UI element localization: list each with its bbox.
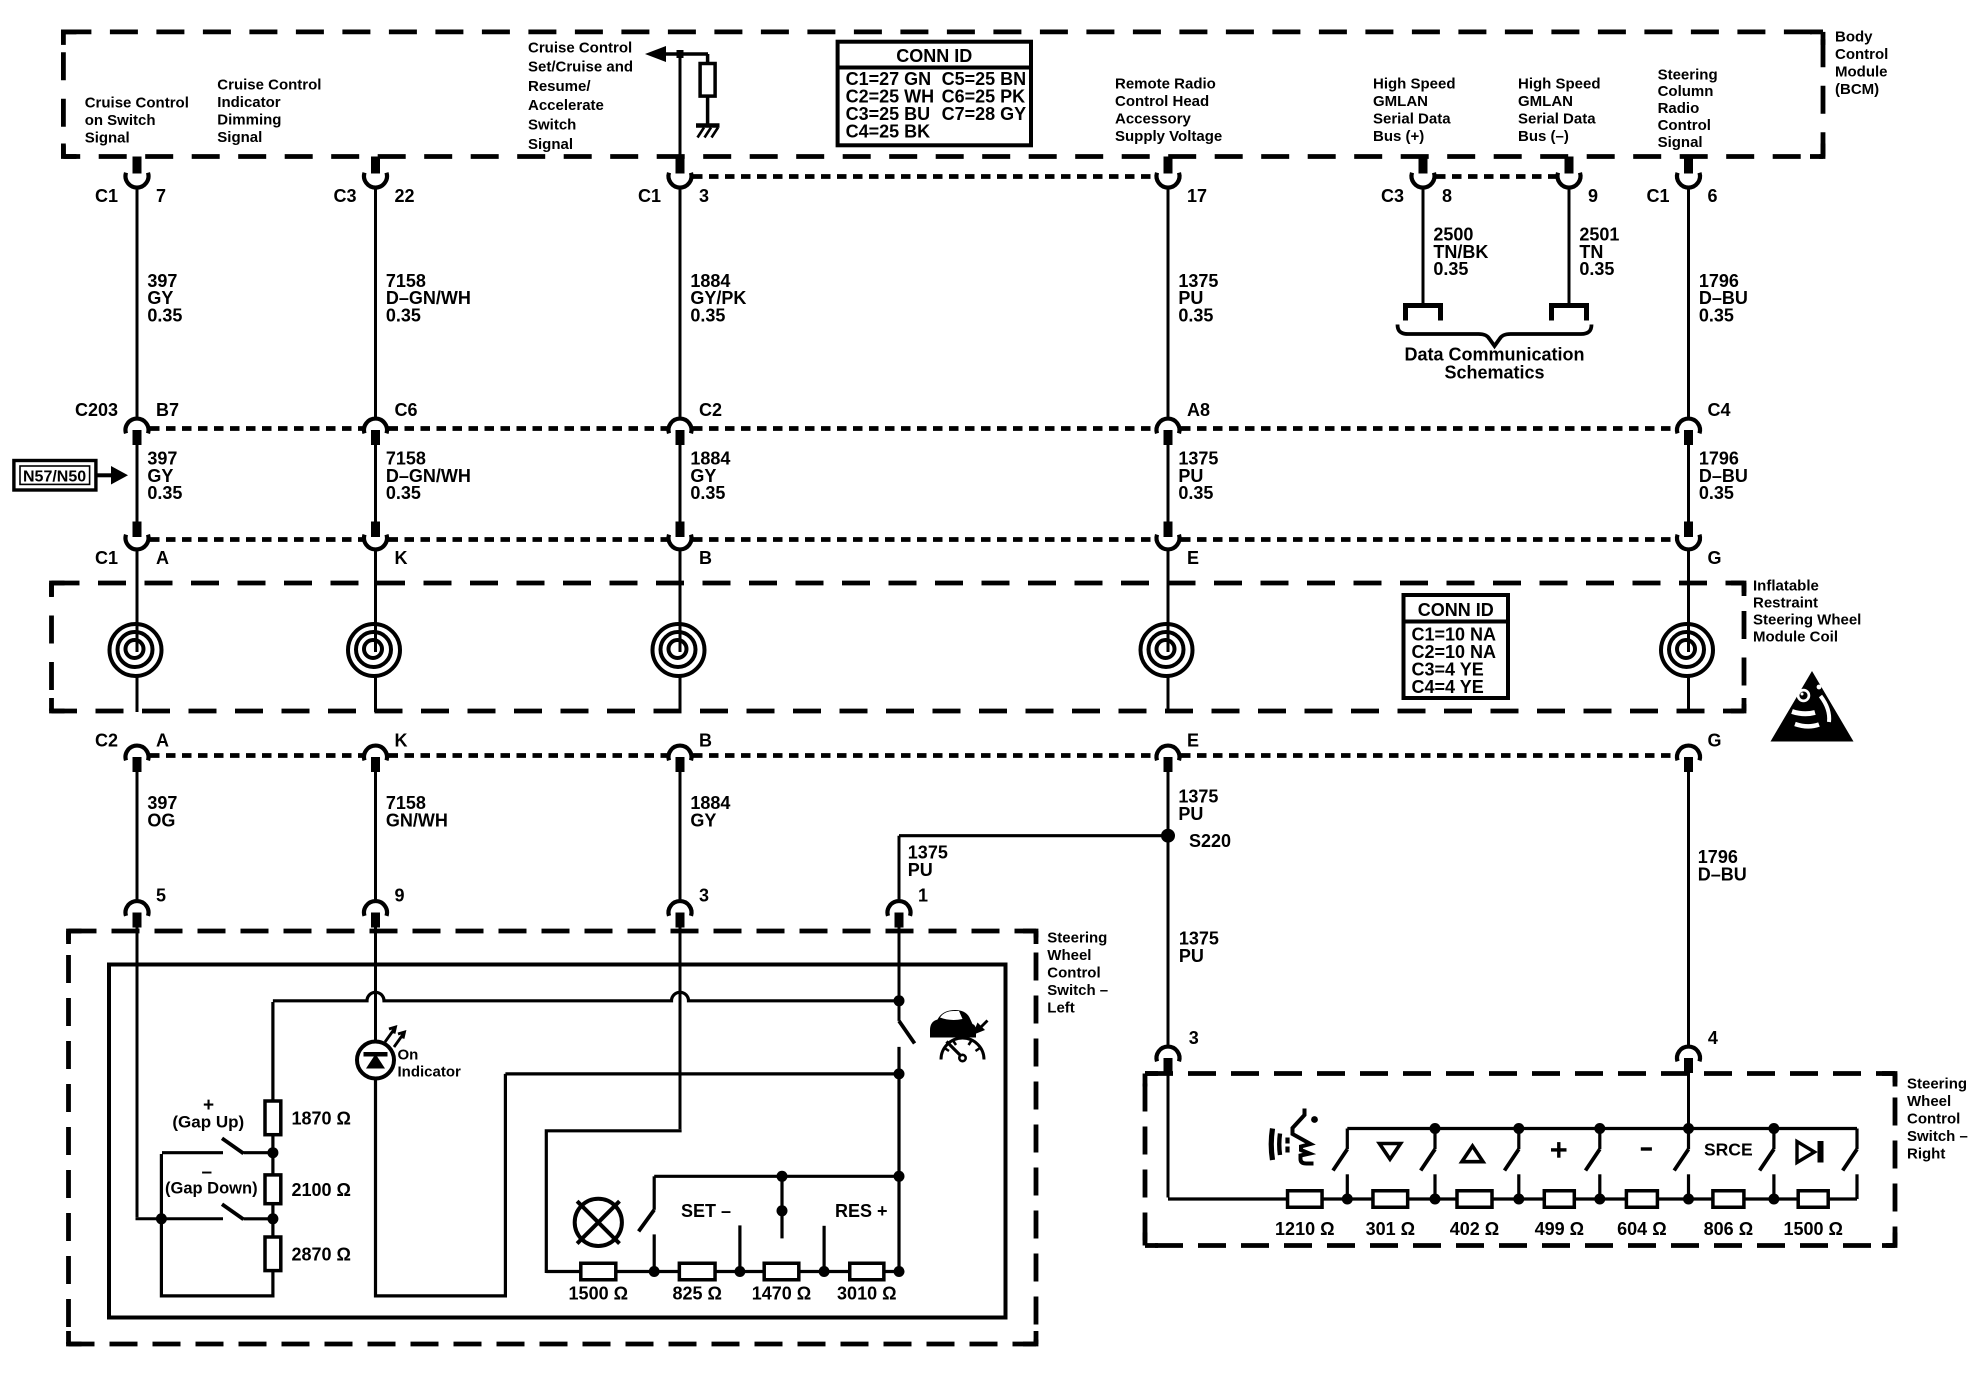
- wire: pin 3 feed down to resistor ladder: [1168, 1073, 1857, 1200]
- connector: BCM pin 22 (wire at x=375.5): [333, 157, 414, 207]
- connector: BCM pin 9 (wire at x=1569): [1558, 157, 1599, 207]
- svg-text:0.35: 0.35: [147, 483, 182, 503]
- svg-text:Steering: Steering: [1907, 1075, 1967, 1092]
- resistor: 806 Ω (right box): [1704, 1191, 1753, 1239]
- connector: coil connector C1 pin B: [669, 522, 713, 569]
- svg-text:0.35: 0.35: [1699, 483, 1734, 503]
- resistor: 499 Ω (right box): [1535, 1191, 1584, 1239]
- svg-text:Restraint: Restraint: [1753, 594, 1818, 611]
- component box: switch-left inner housing: [109, 965, 1006, 1318]
- svg-text:A: A: [156, 548, 169, 568]
- node: junction gap-up at chain: [267, 1147, 278, 1158]
- svg-text:1470 Ω: 1470 Ω: [752, 1284, 811, 1304]
- wire: circuit 1884 from C203 to coil connector C1: [679, 445, 682, 522]
- svg-text:N57/N50: N57/N50: [23, 469, 86, 486]
- wire: circuit 397 from C2 to switch connector: [136, 772, 139, 902]
- svg-text:1210 Ω: 1210 Ω: [1275, 1219, 1334, 1239]
- svg-text:SRCE: SRCE: [1704, 1140, 1753, 1160]
- connector: steering wheel switch-left pin 1: [888, 886, 929, 928]
- switch: source: [1760, 1129, 1774, 1200]
- module box: Inflatable Restraint Steering Wheel Module Coil (dashed): [52, 583, 1745, 711]
- wire: circuit 1884 from BCM to C203 row: [679, 186, 682, 419]
- svg-text:Signal: Signal: [1658, 134, 1703, 151]
- wire: pin 4 feed down to switch common bus: [1687, 1073, 1690, 1129]
- label: wire 1884 GY (lower): [690, 793, 730, 830]
- wire: circuit 1796 D-BU from C2 pin G to connector 4: [1687, 772, 1690, 1047]
- svg-text:1500 Ω: 1500 Ω: [569, 1284, 628, 1304]
- switch: volume +: [1586, 1129, 1600, 1200]
- connector: C203 pin B7: [75, 400, 179, 445]
- bus: SET/RES resistor ladder: [546, 1270, 899, 1273]
- svg-text:Dimming: Dimming: [217, 112, 281, 129]
- svg-text:C4=25 BK: C4=25 BK: [846, 121, 931, 141]
- node: junction switch voice at ladder: [1342, 1194, 1353, 1205]
- resistor: 604 Ω (right box): [1617, 1191, 1666, 1239]
- connector: coil connector C2 pin A: [95, 731, 169, 773]
- switch: seek up: [1505, 1129, 1519, 1200]
- node: junction cruise switch and feed line: [894, 995, 905, 1006]
- label: High Speed GMLAN Serial Data Bus (+): [1373, 75, 1456, 145]
- connector row line: dotted BCM in-line row (wires 5-6): [1436, 174, 1556, 179]
- svg-text:(BCM): (BCM): [1835, 81, 1879, 98]
- wire: pin 1 stub into switch box: [898, 927, 901, 967]
- switch: seek down: [1421, 1129, 1435, 1200]
- svg-text:Data Communication: Data Communication: [1404, 345, 1584, 365]
- label: Data Communication Schematics: [1404, 345, 1584, 383]
- svg-text:Remote Radio: Remote Radio: [1115, 75, 1216, 92]
- connector: C203 pin C6: [364, 400, 418, 445]
- label: Steering Wheel Control Switch - Right: [1907, 1075, 1968, 1162]
- terminator: off-page reference for circuit 2501: [1552, 306, 1587, 321]
- label: wire 1375 PU (above S220): [1178, 786, 1218, 823]
- label: wire 1884 GY (below C203): [690, 448, 730, 503]
- svg-text:C6: C6: [395, 400, 418, 420]
- svg-text:Schematics: Schematics: [1444, 363, 1544, 383]
- connector: steering wheel switch-right pin 3: [1157, 1028, 1199, 1073]
- bus: switch-right common (top): [1347, 1127, 1857, 1130]
- svg-text:Module Coil: Module Coil: [1753, 628, 1838, 645]
- wire: circuit 397 from C203 to coil connector C1: [136, 445, 139, 522]
- svg-text:GY: GY: [690, 810, 716, 830]
- wire: pin 1 circuit to cruise on/off switch: [898, 965, 901, 1002]
- svg-text:C3: C3: [333, 186, 356, 206]
- switch: Gap Down blade: [222, 1204, 268, 1219]
- svg-text:K: K: [395, 731, 408, 751]
- svg-text:B7: B7: [156, 400, 179, 420]
- label: Body Control Module (BCM): [1835, 28, 1888, 98]
- svg-text:0.35: 0.35: [1579, 259, 1614, 279]
- connector: BCM pin 8 (wire at x=1423): [1381, 157, 1452, 207]
- wire: resistor to ground: [706, 96, 710, 124]
- bus: SET/RES switch common (top): [654, 1175, 899, 1178]
- svg-text:Signal: Signal: [217, 129, 262, 146]
- node: junction centre stub at ladder: [734, 1266, 745, 1277]
- svg-text:K: K: [395, 548, 408, 568]
- svg-text:4: 4: [1708, 1028, 1718, 1048]
- connector: coil connector C2 pin K: [364, 731, 408, 773]
- terminator: off-page reference for circuit 2500: [1406, 306, 1441, 321]
- icon: seek up triangle: [1462, 1146, 1483, 1162]
- icon: voice recognition: [1271, 1109, 1318, 1164]
- svg-text:SET –: SET –: [681, 1201, 731, 1221]
- svg-text:0.35: 0.35: [690, 306, 725, 326]
- svg-text:Body: Body: [1835, 28, 1873, 45]
- module box: Steering Wheel Control Switch - Right (dashed): [1145, 1074, 1895, 1246]
- svg-text:604 Ω: 604 Ω: [1617, 1219, 1666, 1239]
- svg-text:9: 9: [1588, 186, 1598, 206]
- inductor: SIR coil winding on wire x=375.5: [348, 548, 400, 713]
- svg-text:Wheel: Wheel: [1047, 947, 1091, 964]
- label: wire 7158 D–GN/WH (below C203): [386, 448, 471, 503]
- label: wire 1796 D–BU: [1699, 271, 1748, 326]
- inductor: SIR coil winding on wire x=1688.5: [1661, 548, 1713, 713]
- label: 2100 ohm: [292, 1180, 351, 1200]
- svg-text:A: A: [156, 731, 169, 751]
- resistor: 825 ohm: [672, 1263, 721, 1303]
- label: wire 397 GY (below C203): [147, 448, 182, 503]
- svg-text:E: E: [1187, 731, 1199, 751]
- svg-text:7: 7: [156, 186, 166, 206]
- svg-text:Steering Wheel: Steering Wheel: [1753, 611, 1861, 628]
- node: junction switch source at ladder: [1768, 1194, 1779, 1205]
- icon: volume plus: [1551, 1142, 1567, 1158]
- svg-text:C7=28 GY: C7=28 GY: [942, 104, 1027, 124]
- label: High Speed GMLAN Serial Data Bus (-): [1518, 75, 1601, 145]
- svg-text:Resume/: Resume/: [528, 78, 591, 95]
- svg-text:825 Ω: 825 Ω: [672, 1284, 721, 1304]
- node: junction at SET/RES top bus right end: [894, 1171, 905, 1182]
- reference box: N57/N50: [14, 461, 96, 491]
- label: - (Gap Down): [165, 1162, 258, 1198]
- label: Cruise Control Set/Cruise and Resume/Accelerate Switch Signal: [528, 39, 633, 153]
- svg-text:Column: Column: [1658, 83, 1714, 100]
- wire: SET/RES centre pole: [777, 1171, 788, 1239]
- svg-text:301 Ω: 301 Ω: [1366, 1219, 1415, 1239]
- svg-text:B: B: [699, 548, 712, 568]
- wire: circuit 1375 from C203 to coil connector C1: [1167, 445, 1170, 522]
- svg-text:Switch: Switch: [528, 117, 576, 134]
- wire: pin 9 stub into switch box: [374, 927, 377, 967]
- svg-text:C4=4 YE: C4=4 YE: [1412, 677, 1484, 697]
- label: 2870 ohm: [292, 1245, 351, 1265]
- svg-text:Cruise Control: Cruise Control: [85, 94, 189, 111]
- svg-text:0.35: 0.35: [1433, 259, 1468, 279]
- node: junction switch volume + at ladder: [1594, 1194, 1605, 1205]
- svg-text:Right: Right: [1907, 1146, 1945, 1163]
- svg-text:1870 Ω: 1870 Ω: [292, 1109, 351, 1129]
- wire: corner from arrow line down to resistor: [706, 54, 710, 65]
- switch: SET-: [639, 1176, 655, 1271]
- warning: SIR airbag caution triangle: [1771, 671, 1854, 742]
- brace: data communication schematics reference: [1398, 325, 1592, 347]
- label: wire 1884 GY/PK: [690, 271, 746, 326]
- svg-text:3: 3: [699, 886, 709, 906]
- wire: circuit 7158 from BCM to C203 row: [374, 186, 377, 419]
- connector: coil connector C1 pin A: [95, 522, 169, 569]
- label: Inflatable Restraint Steering Wheel Module Coil: [1753, 577, 1861, 645]
- label: 1870 ohm: [292, 1109, 351, 1129]
- label: wire 7158 GN/WH (lower): [386, 793, 448, 830]
- connector: coil connector C1 pin E: [1157, 522, 1200, 569]
- connector: BCM pin 6 (wire at x=1688.5): [1646, 157, 1717, 207]
- icon: volume minus: [1641, 1147, 1652, 1150]
- svg-text:S220: S220: [1189, 831, 1231, 851]
- module box: Steering Wheel Control Switch - Left (dashed): [69, 931, 1037, 1344]
- svg-text:6: 6: [1708, 186, 1718, 206]
- svg-text:PU: PU: [908, 860, 933, 880]
- label: wire 1375 PU (below S220): [1179, 928, 1219, 965]
- wire: circuit 7158 from C2 to switch connector: [374, 772, 377, 902]
- node: junction switch seek down at top bus: [1430, 1123, 1441, 1134]
- node: junction ladder right end: [894, 1266, 905, 1277]
- svg-text:Accessory: Accessory: [1115, 111, 1192, 128]
- wire: circuit 1884 from C2 to switch connector: [679, 772, 682, 902]
- svg-text:High Speed: High Speed: [1373, 75, 1456, 92]
- resistor: 1500 ohm (left box): [569, 1263, 628, 1303]
- wire: resistor-chain feed line with hops over wires 9 and 3: [273, 992, 898, 1001]
- node: junction switch source at top bus: [1768, 1123, 1779, 1134]
- wire: GMLAN circuit 2500: [1422, 186, 1425, 304]
- connector row line: coil C1 dotted row: [150, 537, 1676, 542]
- node: junction switch volume - at ladder: [1683, 1194, 1694, 1205]
- svg-text:5: 5: [156, 886, 166, 906]
- resistor: 301 Ω (right box): [1366, 1191, 1415, 1239]
- svg-text:3: 3: [1189, 1028, 1199, 1048]
- icon: seek down triangle: [1379, 1144, 1400, 1160]
- node: junction RES stub at ladder: [819, 1266, 830, 1277]
- switch: cruise control on/off: [899, 1001, 915, 1273]
- svg-text:CONN ID: CONN ID: [1418, 600, 1494, 620]
- connector: BCM pin 7 (wire at x=137): [95, 157, 166, 207]
- wire: circuit 397 from BCM to C203 row: [136, 186, 139, 419]
- connector row line: C203 dotted row: [150, 426, 1676, 431]
- connector: C203 pin C2: [669, 400, 723, 445]
- svg-text:Control: Control: [1658, 117, 1711, 134]
- label: wire 1375 PU (branch): [908, 842, 948, 879]
- label: wire 397 GY: [147, 271, 182, 326]
- svg-text:Module: Module: [1835, 64, 1888, 81]
- svg-text:Signal: Signal: [528, 136, 573, 153]
- svg-text:C3: C3: [1381, 186, 1404, 206]
- label: Cruise Control Indicator Dimming Signal: [217, 76, 321, 146]
- label: wire 7158 D–GN/WH: [386, 271, 471, 326]
- connector: BCM pin 3 (wire at x=680): [638, 157, 709, 207]
- svg-text:Switch –: Switch –: [1047, 982, 1108, 999]
- lamp: illumination bulb: [575, 1199, 622, 1246]
- wire: pin 5 stub into switch box: [136, 927, 139, 967]
- svg-text:1500 Ω: 1500 Ω: [1783, 1219, 1842, 1239]
- svg-text:2870 Ω: 2870 Ω: [292, 1245, 351, 1265]
- switch: volume -: [1674, 1129, 1688, 1200]
- svg-text:B: B: [699, 731, 712, 751]
- svg-text:PU: PU: [1179, 946, 1204, 966]
- svg-text:Accelerate: Accelerate: [528, 97, 604, 114]
- svg-text:GMLAN: GMLAN: [1518, 93, 1573, 110]
- LED: cruise On Indicator: [357, 1027, 405, 1079]
- svg-text:0.35: 0.35: [386, 483, 421, 503]
- wire: cruise set/cruise signal from arrow line to BCM edge: [679, 58, 682, 157]
- svg-text:9: 9: [395, 886, 405, 906]
- svg-text:0.35: 0.35: [1699, 306, 1734, 326]
- svg-text:C2: C2: [95, 731, 118, 751]
- svg-text:C1: C1: [95, 548, 118, 568]
- svg-text:2100 Ω: 2100 Ω: [292, 1180, 351, 1200]
- svg-text:OG: OG: [147, 810, 175, 830]
- svg-text:High Speed: High Speed: [1518, 75, 1601, 92]
- connector: coil connector C1 pin G: [1677, 522, 1722, 569]
- label: SRCE: [1704, 1140, 1753, 1160]
- inductor: SIR coil winding on wire x=680: [653, 548, 705, 713]
- connector: BCM pin 17 (wire at x=1168): [1157, 157, 1208, 207]
- svg-text:GN/WH: GN/WH: [386, 810, 448, 830]
- svg-text:D–BU: D–BU: [1698, 865, 1747, 885]
- svg-text:C4: C4: [1708, 400, 1731, 420]
- wire: circuit 1796 from BCM to C203 row: [1687, 186, 1690, 419]
- svg-text:Serial Data: Serial Data: [1518, 111, 1596, 128]
- wire: gap switch bypass to chain bottom: [161, 1154, 274, 1296]
- connector row line: coil C2 dotted row: [150, 753, 1676, 758]
- connector: coil connector C2 pin G: [1677, 731, 1722, 773]
- table: CONN ID (BCM connectors): [838, 42, 1031, 146]
- svg-text:Bus (–): Bus (–): [1518, 128, 1569, 145]
- svg-text:E: E: [1187, 548, 1199, 568]
- svg-text:Control Head: Control Head: [1115, 93, 1209, 110]
- svg-text:Steering: Steering: [1658, 66, 1718, 83]
- svg-text:Switch –: Switch –: [1907, 1128, 1968, 1145]
- svg-text:17: 17: [1187, 186, 1207, 206]
- label: Steering Wheel Control Switch - Left: [1047, 929, 1108, 1016]
- svg-text:A8: A8: [1187, 400, 1210, 420]
- label: wire 1796 D–BU (below C203): [1699, 448, 1748, 503]
- label: wire 2500 TN/BK: [1433, 224, 1488, 279]
- inductor: SIR coil winding on wire x=137: [110, 548, 162, 713]
- svg-text:GMLAN: GMLAN: [1373, 93, 1428, 110]
- svg-text:0.35: 0.35: [147, 306, 182, 326]
- svg-text:RES +: RES +: [835, 1201, 888, 1221]
- svg-text:C1: C1: [1646, 186, 1669, 206]
- svg-text:CONN ID: CONN ID: [896, 46, 972, 66]
- connector: steering wheel switch-right pin 4: [1677, 1028, 1718, 1073]
- node: junction switch volume - at top bus: [1683, 1123, 1694, 1134]
- svg-text:Control: Control: [1907, 1111, 1960, 1128]
- resistor chain: 1870/2100/2870 ladder: [265, 1002, 281, 1297]
- svg-text:On: On: [398, 1046, 419, 1063]
- svg-text:Bus (+): Bus (+): [1373, 128, 1424, 145]
- label: SET -: [681, 1201, 731, 1221]
- svg-text:C1: C1: [95, 186, 118, 206]
- svg-text:(Gap Down): (Gap Down): [165, 1180, 258, 1198]
- resistor: 3010 ohm: [837, 1263, 896, 1303]
- svg-text:499 Ω: 499 Ω: [1535, 1219, 1584, 1239]
- wire: pin 5 circuit into gap-down contact: [136, 965, 224, 1219]
- svg-text:on Switch: on Switch: [85, 112, 156, 129]
- label: Remote Radio Control Head Accessory Supply Voltage: [1115, 75, 1222, 145]
- svg-text:0.35: 0.35: [1178, 306, 1213, 326]
- svg-text:3010 Ω: 3010 Ω: [837, 1284, 896, 1304]
- node: junction switch seek down at ladder: [1430, 1194, 1441, 1205]
- label: wire 2501 TN: [1579, 224, 1619, 279]
- connector: coil connector C2 pin E: [1157, 731, 1200, 773]
- table: CONN ID (coil connectors): [1404, 595, 1509, 698]
- icon: cruise control (car with speedometer): [930, 1010, 988, 1061]
- svg-text:806 Ω: 806 Ω: [1704, 1219, 1753, 1239]
- svg-text:Signal: Signal: [85, 130, 130, 147]
- connector: steering wheel switch-left pin 3: [669, 886, 710, 928]
- module box: Body Control Module (BCM), dashed border: [63, 32, 1823, 157]
- node: junction switch seek up at top bus: [1513, 1123, 1524, 1134]
- svg-text:0.35: 0.35: [1178, 483, 1213, 503]
- svg-text:8: 8: [1442, 186, 1452, 206]
- svg-text:(Gap Up): (Gap Up): [172, 1113, 244, 1132]
- svg-text:Left: Left: [1047, 1000, 1075, 1017]
- svg-text:Indicator: Indicator: [217, 94, 281, 111]
- node: junction of wire 3 and arrow line: [677, 50, 684, 58]
- svg-text:PU: PU: [1178, 804, 1203, 824]
- switch: voice: [1333, 1129, 1347, 1200]
- arrow: cruise-control set/cruise feed pointing left: [645, 46, 708, 62]
- label: On Indicator: [398, 1046, 462, 1080]
- svg-text:3: 3: [699, 186, 709, 206]
- svg-text:Cruise Control: Cruise Control: [217, 76, 321, 93]
- svg-text:Supply Voltage: Supply Voltage: [1115, 128, 1222, 145]
- wire: pin 3 stub into switch box: [679, 927, 682, 967]
- svg-text:Control: Control: [1835, 46, 1888, 63]
- node: junction bypass and gap-down line: [156, 1213, 167, 1224]
- wire: pin 3 circuit down and left to resistor ladder: [546, 965, 681, 1274]
- label: wire 1375 PU: [1178, 271, 1218, 326]
- arrow: N57/N50 pointer to wire 397: [96, 466, 128, 485]
- label: wire 397 OG (lower): [147, 793, 177, 830]
- node: junction switch volume + at top bus: [1594, 1123, 1605, 1134]
- label: wire 1796 D-BU (lower): [1698, 847, 1747, 884]
- svg-text:Control: Control: [1047, 965, 1100, 982]
- svg-text:1: 1: [918, 886, 928, 906]
- wire: circuit 1796 from C203 to coil connector C1: [1687, 445, 1690, 522]
- label: RES +: [835, 1201, 888, 1221]
- label: Cruise Control on Switch Signal: [85, 94, 189, 146]
- connector: steering wheel switch-left pin 9: [364, 886, 405, 928]
- label: + (Gap Up): [172, 1095, 244, 1132]
- svg-text:Set/Cruise and: Set/Cruise and: [528, 59, 633, 76]
- wire: pin 9 circuit through On Indicator LED down and around to cruise switch line: [376, 965, 899, 1296]
- switch: next track: [1843, 1129, 1857, 1200]
- connector: coil connector C2 pin B: [669, 731, 712, 773]
- node: junction switch seek up at ladder: [1513, 1194, 1524, 1205]
- svg-text:G: G: [1708, 548, 1722, 568]
- svg-text:C203: C203: [75, 400, 118, 420]
- wire: circuit 1375 PU from C2 pin E to S220 and down to connector 3: [1167, 772, 1170, 1047]
- connector: C203 pin C4: [1677, 400, 1731, 445]
- wire: GMLAN circuit 2501: [1568, 186, 1571, 304]
- svg-text:0.35: 0.35: [386, 306, 421, 326]
- switch: RES+ contact stub: [822, 1226, 825, 1272]
- resistor: pull-up on set/cruise line: [700, 64, 715, 97]
- wire: 1375 PU branch from S220 to connector 1: [899, 836, 1167, 901]
- resistor: 1210 Ω (right box): [1275, 1191, 1334, 1239]
- switch: Gap Up: [162, 1138, 268, 1153]
- svg-text:Cruise Control: Cruise Control: [528, 39, 632, 56]
- svg-text:22: 22: [395, 186, 415, 206]
- svg-text:Radio: Radio: [1658, 100, 1700, 117]
- resistor: 1500 Ω (right box): [1783, 1191, 1842, 1239]
- connector row line: dotted BCM in-line row (wires 3-4): [693, 174, 1155, 179]
- connector: C203 pin A8: [1157, 400, 1211, 445]
- svg-text:C2: C2: [699, 400, 722, 420]
- ground: chassis ground symbol: [696, 126, 720, 138]
- svg-text:Steering: Steering: [1047, 929, 1107, 946]
- resistor: 1470 ohm: [752, 1263, 811, 1303]
- wire: circuit 1375 from BCM to C203 row: [1167, 186, 1170, 419]
